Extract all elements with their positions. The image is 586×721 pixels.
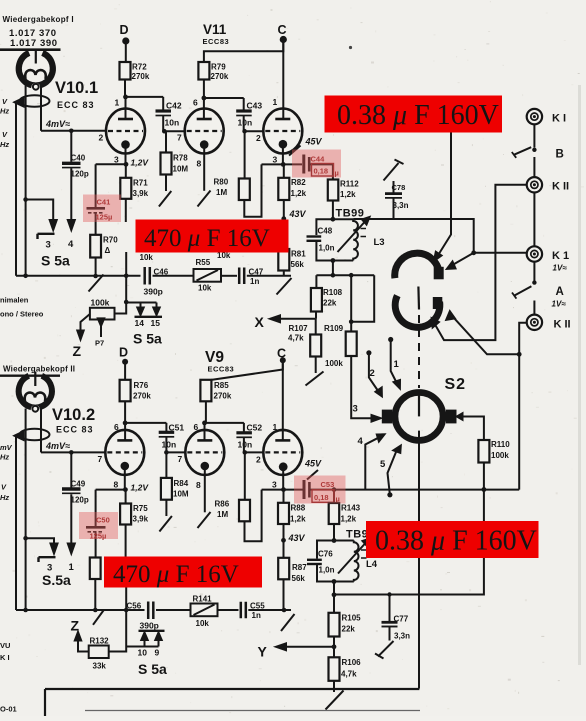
node dot R78 tap (162, 129, 167, 134)
node dot V11b cathode junction (281, 162, 286, 167)
wire 4mV grid wire II (41, 451, 105, 453)
resistor R143 (329, 503, 340, 524)
wire R75 leads (125, 490, 128, 647)
wire R106 bottom (333, 681, 335, 692)
wire pin3 to C41 (96, 163, 126, 165)
svg-text:2: 2 (256, 133, 261, 143)
core dashes L3 (361, 229, 367, 237)
resistor R108 (315, 275, 317, 288)
svg-text:R106: R106 (342, 658, 362, 667)
wire R72 to anode node (124, 80, 126, 97)
arrow contact 14 (137, 308, 143, 316)
switch tick C77 (375, 654, 384, 659)
wire to contacts 10 9 (126, 640, 158, 647)
svg-text:3: 3 (353, 404, 358, 415)
resistor R88 (283, 490, 285, 503)
wire lower horizontal to L4 (334, 594, 419, 596)
svg-text:10M: 10M (173, 165, 189, 174)
potentiometer 100k box (90, 308, 115, 320)
scan speck (349, 46, 352, 49)
svg-text:D: D (120, 23, 129, 37)
svg-text:S 5a: S 5a (41, 253, 70, 269)
wire to contacts 14 15 (126, 303, 156, 309)
wire Y node (278, 637, 334, 658)
annotation red box 470uF 16V bottom (104, 557, 262, 589)
resistor R131 unlabeled (90, 558, 101, 580)
annotation red box 0.38uF 160V bottom (366, 521, 539, 558)
switch diagonal at R70 (89, 275, 104, 292)
arrow contact 9 (155, 633, 161, 641)
svg-text:10n: 10n (238, 440, 253, 450)
svg-text:S.5a: S.5a (42, 572, 71, 588)
svg-text:C42: C42 (166, 101, 182, 111)
arrow P7 (100, 326, 102, 338)
resistor R105 (329, 613, 340, 637)
resistor R141 slash (194, 605, 215, 616)
svg-text:V10.1: V10.1 (55, 79, 98, 97)
svg-text:0.38 μ F 160V: 0.38 μ F 160V (337, 100, 499, 131)
svg-text:C77: C77 (394, 615, 409, 624)
rotary switch upper arc (395, 253, 440, 278)
svg-text:ECC83: ECC83 (208, 365, 235, 374)
svg-text:6: 6 (114, 422, 119, 432)
svg-text:1,2k: 1,2k (341, 515, 357, 524)
svg-text:2: 2 (99, 133, 104, 143)
main bus wire left (16, 275, 141, 277)
capacitor C44 bars (302, 155, 305, 174)
svg-text:43V: 43V (289, 209, 307, 219)
wire R87 to bus (283, 579, 285, 610)
highlight C41 pink (83, 195, 121, 223)
wire C43 to V11b grid (244, 130, 264, 132)
wire TB99 bottom bus (316, 274, 374, 276)
resistor R112 (328, 180, 339, 201)
wire R109 to contact 3 (351, 356, 372, 418)
node dot lower horiz L4 (332, 592, 337, 597)
svg-text:R71: R71 (133, 179, 148, 188)
svg-text:R78: R78 (173, 154, 188, 163)
svg-text:Z: Z (71, 618, 80, 634)
svg-text:100k: 100k (491, 451, 509, 460)
node dot bus R71 column (124, 274, 129, 279)
arrow contact 3 S2 (372, 415, 381, 422)
svg-text:120p: 120p (71, 170, 89, 179)
resistor R82 (283, 164, 285, 177)
svg-text:4,7k: 4,7k (288, 334, 304, 343)
capacitor C77 plates (382, 621, 398, 624)
svg-text:1,0n: 1,0n (319, 566, 335, 575)
arrow Z down (77, 331, 83, 340)
jack K II bottom (527, 315, 542, 330)
svg-text:R87: R87 (292, 563, 307, 572)
annotation red box 0.38uF 160V top (325, 96, 503, 133)
S2 pointer (418, 392, 420, 417)
svg-text:K II: K II (554, 319, 571, 331)
capacitor C76 plates (307, 559, 322, 561)
resistor R141 (191, 604, 218, 617)
capacitor C55 (241, 602, 246, 619)
svg-text:Hz: Hz (0, 453, 9, 462)
capacitor C48 plates (307, 235, 322, 237)
wire R70 to bus (95, 258, 97, 275)
wire C slant to R85 (206, 363, 283, 381)
svg-text:1n: 1n (250, 277, 259, 286)
wire shield to bus (15, 103, 17, 276)
wire KII to K1 (533, 193, 535, 247)
head I shield triangle (15, 98, 24, 106)
switch blade A (514, 286, 531, 296)
svg-text:470 μ F 16V: 470 μ F 16V (113, 561, 239, 588)
svg-text:1n: 1n (252, 611, 261, 620)
capacitor C77 leads (389, 595, 391, 641)
svg-text:4mV≈: 4mV≈ (45, 119, 70, 129)
wire head I right lead (40, 86, 42, 131)
node dot R86 tap (243, 450, 248, 455)
resistor R110 with arrow to S2 (462, 417, 484, 490)
svg-text:C52: C52 (247, 423, 263, 433)
svg-text:Hz: Hz (0, 140, 9, 149)
svg-text:R75: R75 (133, 504, 148, 513)
svg-text:270k: 270k (133, 392, 151, 401)
svg-text:270k: 270k (214, 392, 232, 401)
wire R82 to 43V node (283, 200, 285, 219)
switch diagonal under V9a cathode (198, 512, 211, 528)
svg-text:R76: R76 (134, 381, 149, 390)
wire R112 to tank (332, 201, 334, 220)
bus segment R141-C55 (218, 609, 239, 611)
head I rear gap circle (31, 83, 40, 92)
svg-text:L4: L4 (366, 559, 378, 570)
node dot tank bus (331, 273, 336, 278)
switch diagonal above C78 (384, 163, 399, 181)
svg-text:X: X (255, 314, 265, 330)
wire R78 bottom (165, 175, 167, 192)
svg-text:ono / Stereo: ono / Stereo (0, 310, 44, 319)
svg-text:1,2V: 1,2V (131, 483, 150, 493)
svg-text:7: 7 (177, 133, 182, 143)
svg-text:V11: V11 (203, 22, 227, 37)
triode V9b (263, 363, 302, 490)
wire R109 jog (351, 275, 374, 331)
node dot tank II top (332, 538, 337, 543)
inductor L3 coil (353, 219, 358, 260)
capacitor C53 bars (303, 480, 306, 499)
resistor R55 (194, 269, 222, 282)
inductor L4 coil (354, 541, 359, 582)
svg-text:10: 10 (138, 648, 148, 658)
svg-text:C56: C56 (127, 602, 142, 611)
node dot V10.2 cathode junction (123, 487, 128, 492)
switch diagonal bus II end (281, 614, 295, 631)
node dot R110 bottom (482, 487, 487, 492)
arrow contact 3 II (51, 544, 58, 554)
svg-text:R109: R109 (324, 324, 344, 333)
node dot R109 top (349, 320, 354, 325)
svg-text:S2: S2 (445, 376, 467, 393)
rule under head I title (0, 48, 61, 51)
svg-text:45V: 45V (305, 137, 323, 147)
bus segment C46-R55 (153, 275, 194, 277)
wire W2 from red box to arc (439, 132, 452, 255)
svg-text:390p: 390p (144, 287, 163, 297)
svg-text:8: 8 (197, 159, 202, 169)
wire branch to contact 3 II (26, 538, 54, 544)
transformer L4 tank box (317, 541, 354, 582)
svg-text:10M: 10M (173, 490, 189, 499)
svg-text:3: 3 (273, 155, 278, 165)
svg-text:3,3n: 3,3n (394, 632, 410, 641)
capacitor C40 lead (70, 131, 72, 221)
S2 left tab (382, 410, 393, 424)
svg-text:6: 6 (194, 422, 199, 432)
svg-text:1: 1 (115, 98, 120, 108)
svg-text:K I: K I (552, 113, 566, 125)
node dot bus II R75 column (124, 608, 129, 613)
resistor R72 (120, 62, 131, 80)
wire S2 bottom column (418, 431, 420, 689)
node dot R84 tap (164, 450, 169, 455)
svg-text:7: 7 (178, 454, 183, 464)
node dot R109 bus (349, 273, 354, 278)
svg-text:4mV≈: 4mV≈ (45, 441, 70, 451)
jack K II upper (527, 177, 542, 192)
svg-text:33k: 33k (93, 662, 107, 671)
svg-text:Wiedergabekopf I: Wiedergabekopf I (3, 15, 74, 24)
wire 4mV grid wire (41, 130, 106, 132)
wire tank bottom lead (332, 261, 334, 276)
svg-text:45V: 45V (304, 459, 322, 469)
wire C51 to V9a grid (166, 451, 185, 453)
resistor R85 (200, 380, 211, 402)
node dot R131 bus (93, 608, 98, 613)
capacitor C51 leads (165, 423, 167, 453)
svg-text:14: 14 (135, 318, 145, 328)
contact bar S5a II (39, 557, 56, 562)
pointer slash 45V (289, 146, 301, 156)
svg-text:O-01: O-01 (0, 705, 17, 714)
svg-text:1: 1 (273, 97, 278, 107)
wire anode node to C42 (126, 96, 164, 98)
head I core windings (25, 70, 46, 79)
svg-text:A: A (556, 286, 564, 298)
svg-text:1M: 1M (217, 510, 228, 519)
bus segment C47-end (247, 275, 291, 277)
svg-text:3,9k: 3,9k (133, 189, 149, 198)
svg-text:100k: 100k (325, 359, 343, 368)
svg-text:K I: K I (0, 653, 10, 662)
svg-text:L3: L3 (374, 237, 385, 248)
wire X node (272, 312, 316, 319)
head I ring (19, 53, 53, 86)
svg-text:R82: R82 (291, 178, 306, 187)
node dot V11a anode (202, 96, 207, 101)
switch diagonal at R131 (93, 610, 104, 625)
capacitor C49 plates (62, 487, 81, 490)
node dot 4mV tap (69, 129, 74, 134)
node dot 4mV tap II (69, 450, 74, 455)
svg-text:470 μ F 16V: 470 μ F 16V (144, 225, 270, 252)
node dot V10.1 anode (123, 95, 128, 100)
wire R71 leads (125, 164, 127, 302)
svg-text:R84: R84 (174, 479, 189, 488)
svg-text:Hz: Hz (0, 107, 9, 116)
capacitor C47 (239, 268, 244, 285)
wire R131 to bus (94, 579, 96, 609)
wire C42 to V11 grid (163, 130, 184, 132)
capacitor C43 leads (243, 98, 245, 131)
svg-text:R81: R81 (291, 250, 306, 259)
svg-text:B: B (556, 149, 564, 161)
resistor R106 (329, 657, 340, 681)
svg-text:1: 1 (394, 359, 400, 370)
S2 right tab (446, 410, 457, 424)
svg-text:120p: 120p (71, 496, 89, 505)
svg-text:R110: R110 (491, 440, 510, 449)
wire KI to B switch (533, 124, 535, 147)
svg-text:4: 4 (68, 239, 74, 250)
svg-text:R143: R143 (341, 504, 361, 513)
svg-text:ECC 83: ECC 83 (56, 425, 94, 435)
resistor R80 (244, 131, 246, 178)
head II screen ellipse (20, 429, 50, 441)
svg-text:Hz: Hz (0, 493, 9, 502)
node dot R143 tap (332, 487, 337, 492)
svg-text:S 5a: S 5a (138, 661, 167, 677)
resistor R84 (165, 452, 167, 478)
capacitor C42 leads (162, 97, 164, 131)
svg-text:1M: 1M (216, 188, 227, 197)
wire K1 to A switch (533, 262, 535, 281)
rotor line (417, 287, 420, 310)
switch diagonal under C77 (378, 641, 394, 657)
contact bar S5a (38, 234, 55, 239)
node dot W1 corner (471, 250, 476, 255)
resistor R70 (90, 235, 101, 258)
svg-text:mV: mV (0, 443, 13, 452)
wire C53 to R143 handled by long wire (333, 490, 335, 503)
rule under head II title (0, 375, 60, 377)
svg-text:C78: C78 (392, 183, 406, 192)
svg-text:270k: 270k (211, 72, 229, 81)
rotary switch lower arc (395, 296, 440, 328)
trimmer arrow L4 (338, 543, 366, 574)
switch blade B (514, 147, 531, 155)
capacitor C50 leads (95, 490, 97, 558)
svg-text:nimalen: nimalen (0, 296, 29, 305)
resistor R107 (315, 319, 317, 335)
resistor R81 (283, 219, 285, 249)
dashed axis line (418, 315, 420, 388)
wire R107 bottom (315, 357, 317, 374)
switch diagonal under R78 (159, 191, 171, 207)
node dot B (532, 148, 536, 152)
arrow X (270, 315, 280, 322)
triode V9a (185, 423, 224, 512)
highlight C44 pink (292, 150, 341, 178)
wire C jog to R79 (204, 42, 283, 63)
wire D to R76 (124, 364, 126, 380)
svg-text:3: 3 (272, 480, 277, 490)
core dashes L4 (361, 550, 367, 558)
svg-text:C49: C49 (71, 480, 86, 489)
switch S2 circle (395, 392, 443, 440)
capacitor C50 plates (86, 526, 106, 529)
svg-text:4,7k: 4,7k (341, 670, 357, 679)
node dot A (532, 280, 536, 284)
wire pin8 to C50 (96, 489, 126, 491)
svg-text:TB99: TB99 (336, 208, 365, 220)
svg-text:3,3n: 3,3n (393, 201, 409, 210)
resistor R78 (165, 131, 167, 152)
switch diagonal under V11a cathode (198, 191, 211, 207)
triode V11b (263, 42, 302, 165)
capacitor C43 plates (236, 109, 252, 112)
wire R76 to anode node (124, 401, 126, 423)
svg-text:10k: 10k (198, 284, 212, 293)
wire W3 KII to lower arc (435, 185, 527, 340)
wire branch to contact 3 (26, 200, 54, 221)
svg-text:R55: R55 (196, 258, 211, 267)
arrow contact 15 (153, 308, 159, 316)
node dot contacts 14-15 branch (124, 300, 129, 305)
long wire y489 lower channel to S2 column (311, 354, 520, 594)
wire C52 to V9b grid (244, 451, 264, 453)
wire head II left lead (25, 409, 27, 611)
svg-text:1.017 390: 1.017 390 (10, 38, 58, 49)
switch diagonal under R107 (306, 372, 324, 386)
resistor R79 (198, 62, 209, 80)
svg-text:6: 6 (193, 98, 198, 108)
head II ring (19, 376, 52, 408)
capacitor C52 plates (236, 431, 252, 434)
svg-text:R70: R70 (103, 236, 118, 245)
svg-text:V10.2: V10.2 (52, 406, 95, 424)
svg-text:8: 8 (114, 480, 119, 490)
wire cathode bus V11b (262, 163, 303, 165)
arrow contact 3 (50, 220, 57, 230)
wire anode to C52 (205, 422, 244, 424)
svg-text:Z: Z (73, 343, 82, 359)
svg-text:1,2k: 1,2k (291, 189, 307, 198)
svg-text:Δ: Δ (105, 246, 111, 255)
head I gap line (35, 49, 37, 64)
node dot branch 3 (23, 197, 28, 202)
transformer TB99 tank box (316, 219, 353, 260)
arrow W1 to arc (452, 253, 474, 265)
frame row line faint (85, 710, 420, 712)
contact bar 10 9 (139, 630, 165, 632)
svg-text:R72: R72 (132, 63, 147, 72)
box around 0,18 value (312, 164, 334, 177)
wire R81 to bus (283, 271, 285, 276)
node dot W4 (517, 352, 522, 357)
svg-text:22k: 22k (342, 625, 356, 634)
resistor R86 (244, 452, 246, 499)
resistor R132 (89, 646, 109, 659)
svg-text:R105: R105 (342, 614, 362, 623)
capacitor C46 (145, 267, 150, 285)
wire anode to C43 (204, 97, 244, 99)
contact 1 S2 (388, 337, 393, 342)
svg-text:1,2k: 1,2k (290, 515, 306, 524)
contact bar 14 15 (135, 316, 163, 318)
bus segment R55-C47 (221, 275, 237, 277)
bus segment C55-end (248, 609, 291, 611)
wire pot left to Z (81, 314, 90, 331)
upper arc tab (434, 267, 444, 280)
capacitor C52 leads (243, 423, 245, 453)
svg-text:1,2k: 1,2k (340, 190, 356, 199)
